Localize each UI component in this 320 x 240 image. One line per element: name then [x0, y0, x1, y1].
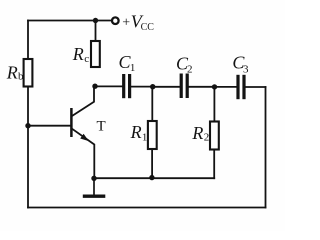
wire R1 bottom lead [151, 149, 153, 178]
resistor R2 [210, 122, 219, 150]
capacitor C3 [238, 75, 244, 99]
svg-text:b: b [18, 71, 24, 83]
svg-text:c: c [84, 53, 89, 65]
wire bottom feedback rail [28, 207, 266, 209]
resistor Rb [24, 59, 33, 87]
junction dot emitter node [91, 176, 96, 181]
wire collector node to C1 [95, 85, 122, 87]
junction dot R1 bottom [149, 175, 154, 180]
svg-text:2: 2 [187, 63, 193, 75]
wire C1 to node A [131, 86, 153, 88]
wire right vertical (C3 to bottom rail) [265, 87, 267, 208]
node B junction dot [212, 84, 217, 89]
terminal +Vcc circle [112, 17, 119, 24]
resistor R1 [148, 121, 157, 149]
svg-text:3: 3 [243, 63, 249, 75]
svg-text:+: + [122, 15, 130, 30]
svg-text:R: R [6, 63, 18, 83]
wire left vertical upper (top rail to Rb) [27, 21, 29, 60]
wire node B to C3 [215, 86, 237, 88]
junction dot top (Rc tap) [93, 18, 98, 23]
svg-text:R: R [72, 44, 84, 64]
wire R1 top lead [151, 87, 153, 121]
wire C2 to node B [189, 86, 215, 88]
svg-text:T: T [97, 119, 106, 135]
transistor emitter arrow [80, 134, 89, 141]
svg-text:1: 1 [130, 62, 136, 74]
capacitor C2 [181, 74, 187, 99]
wire node A to C2 [153, 86, 180, 88]
resistor Rc [91, 41, 100, 67]
wire base [28, 125, 71, 127]
ground [83, 178, 106, 196]
wire C3 to right vertical [246, 86, 266, 88]
wire R2 top lead [213, 87, 215, 122]
svg-text:R: R [191, 123, 203, 143]
wire Rc top feed [95, 21, 97, 42]
svg-text:R: R [130, 122, 142, 142]
junction dot collector node [92, 84, 97, 89]
capacitor C1 [124, 74, 130, 98]
svg-text:CC: CC [141, 22, 155, 33]
svg-text:2: 2 [204, 132, 210, 144]
wire top rail [28, 20, 112, 22]
transistor T [71, 86, 94, 178]
wire left vertical lower (Rb to bottom rail) [27, 87, 29, 208]
wire emitter line [94, 177, 214, 179]
svg-text:1: 1 [142, 132, 148, 144]
node A junction dot [150, 84, 155, 89]
wire R2 bottom lead and corner [213, 150, 215, 179]
junction dot base node [25, 123, 30, 128]
